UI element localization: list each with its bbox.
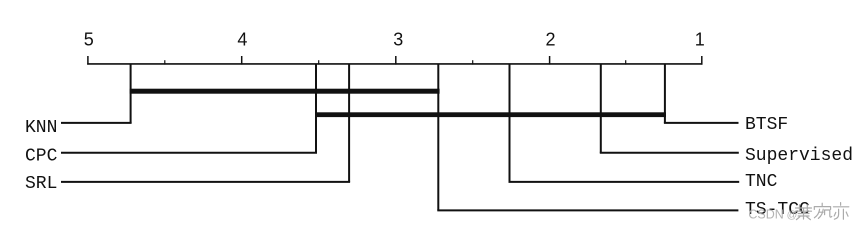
drop line TS-TCC [437,64,439,211]
drop line Supervised [600,64,602,153]
watermark chinese char yi [833,203,848,220]
connector CPC [61,152,317,154]
clique bar 1 (KNN..TS-TCC) [130,89,440,94]
connector TNC [509,181,740,183]
minor tick 1.5 [625,60,627,64]
major tick 1 [701,56,703,65]
clique bar 2 (CPC..BTSF) [315,112,666,117]
drop line CPC [315,64,317,153]
svg-text:CPC: CPC [25,146,58,166]
major tick 2 [549,56,551,65]
axis line [87,63,702,65]
connector SRL [61,181,350,183]
major tick 5 [87,56,89,65]
drop line TNC [509,64,511,182]
svg-text:3: 3 [393,30,403,50]
svg-text:KNN: KNN [25,118,57,138]
minor tick 3.5 [318,60,320,64]
drop line BTSF [664,64,666,123]
connector BTSF [664,122,739,124]
svg-text:4: 4 [237,30,247,50]
drop line SRL [348,64,350,182]
watermark chinese char wan [814,203,832,218]
connector Supervised [600,152,739,154]
minor tick 2.5 [472,60,474,64]
svg-text:CSDN: CSDN [748,207,783,221]
svg-text:BTSF: BTSF [745,115,788,135]
svg-text:1: 1 [695,30,705,50]
minor tick 4.5 [164,60,166,64]
svg-text:2: 2 [545,30,555,50]
svg-text:Supervised: Supervised [745,146,853,166]
major tick 4 [241,56,243,65]
major tick 3 [395,56,397,65]
connector TS-TCC [437,209,738,211]
connector KNN [61,122,132,124]
watermark chinese char xiao [796,205,812,220]
svg-text:5: 5 [84,30,94,50]
svg-text:TNC: TNC [745,172,778,192]
svg-text:SRL: SRL [25,174,57,194]
drop line KNN [130,64,132,123]
